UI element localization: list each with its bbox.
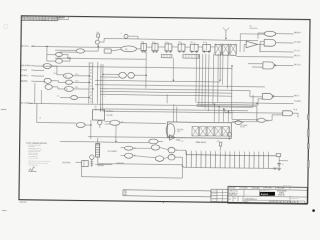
- ground bar 3: [278, 169, 281, 171]
- flip-flop cell 5 clock bubble b: [196, 51, 197, 52]
- svg-text:TO CLK: TO CLK: [240, 126, 245, 128]
- comb drop 12: [238, 155, 240, 168]
- junction dot 2: [69, 58, 70, 59]
- comb bottom rail: [182, 167, 276, 168]
- buffer gate B7: [169, 135, 175, 140]
- flip-flop cell 6 divider: [206, 44, 208, 51]
- comb tick 3: [195, 151, 197, 155]
- svg-text:E10: E10: [141, 42, 144, 44]
- wire row drop 1: [195, 54, 198, 102]
- wire input tp4 stub: [34, 69, 44, 71]
- or-gate left 3: [45, 84, 52, 89]
- wire SP CLK run: [31, 46, 121, 47]
- svg-text:PROJ ENG: PROJ ENG: [265, 187, 272, 189]
- comb tick 17: [263, 152, 265, 156]
- title bottom divider 243.0: [242, 196, 244, 203]
- parts table divider: [216, 189, 218, 201]
- wire gate feed y112: [225, 111, 283, 114]
- svg-text:E14: E14: [191, 42, 194, 44]
- comb drop 17: [263, 156, 265, 169]
- title bottom divider 233.0: [232, 196, 234, 203]
- sub register box 1: [161, 55, 172, 58]
- wire Q out: [120, 122, 166, 125]
- wire Q5 corner: [128, 36, 138, 39]
- zone tick left border: [1, 109, 6, 111]
- flip-flop cell 6: [203, 44, 211, 51]
- input stub wire (TP4) H: [31, 69, 33, 71]
- nand-gate R1: [263, 62, 274, 69]
- ground bar 1: [277, 167, 281, 169]
- or-gate mid 2: [65, 80, 72, 84]
- wire bus run y108: [103, 109, 248, 111]
- junction dot 21: [225, 38, 226, 39]
- wire Q4 down: [91, 159, 93, 167]
- wire mid run y91: [100, 91, 232, 93]
- logo box digital: [260, 192, 275, 196]
- flip-flop cell 3 top stub: [167, 42, 169, 43]
- wire B4 out: [164, 157, 168, 158]
- resistor network rung 1: [96, 144, 100, 146]
- junction dot 12: [231, 65, 232, 66]
- latch cell 1: [215, 45, 221, 56]
- wire drop x34: [34, 83, 36, 103]
- sub box tick 164: [163, 55, 165, 58]
- comb drop 6: [209, 155, 211, 168]
- wire B2 out: [62, 58, 70, 61]
- sub box tick 192: [191, 55, 193, 58]
- parts table rule 3: [211, 198, 228, 200]
- wire B0 out: [158, 140, 163, 142]
- svg-text:PD STB L: PD STB L: [294, 42, 301, 44]
- wire out1: [276, 33, 294, 35]
- wire out6: [274, 95, 294, 97]
- or-gate mid 3: [64, 86, 73, 91]
- comb tick 11: [234, 151, 236, 155]
- wire row drop 7: [217, 54, 220, 102]
- wire bus run y102: [197, 102, 294, 103]
- svg-text:PC H: PC H: [294, 109, 298, 111]
- flip-flop cell 4 top stub: [181, 42, 183, 43]
- flip-flop cell 1 clock bubble: [142, 51, 143, 52]
- wire row drop 4: [204, 54, 207, 109]
- comb drop 2: [190, 155, 192, 168]
- wire end stem: [278, 156, 280, 162]
- FF pin 2: [100, 108, 102, 110]
- wire input mbinc stub: [34, 75, 44, 77]
- dist box 7: [291, 201, 295, 203]
- junction dot 17: [256, 103, 257, 104]
- wire P out: [85, 124, 91, 126]
- wire drop x90: [90, 120, 92, 139]
- wire drop x146: [145, 52, 147, 89]
- wire cap dn: [278, 165, 280, 168]
- wire long y136: [88, 137, 169, 138]
- svg-text:PAUSE L: PAUSE L: [21, 80, 29, 83]
- bus vertical 3: [96, 62, 99, 103]
- wire resnet dn: [97, 157, 99, 164]
- wire M1 out: [72, 75, 89, 77]
- buffer-gate B2: [55, 59, 62, 64]
- signature underline: [29, 170, 37, 172]
- wire Q in1: [105, 120, 110, 122]
- resistor R2: [219, 142, 221, 146]
- wire B feed vertical: [47, 46, 56, 61]
- svg-text:RUN SET L: RUN SET L: [117, 163, 125, 165]
- junction dot 19: [90, 124, 91, 125]
- dist box 2: [273, 201, 277, 203]
- Q4 rung 2: [90, 162, 93, 164]
- capacitor C1 plate1: [277, 162, 280, 164]
- resistor network rung 2: [96, 146, 100, 148]
- svg-text:MB INC L: MB INC L: [21, 75, 29, 77]
- junction dot 20: [182, 166, 183, 167]
- module cell 3: [207, 127, 214, 136]
- capacitor C1 plate2: [278, 164, 280, 166]
- svg-text:GND REF: GND REF: [97, 165, 103, 167]
- and-gate R3: [283, 111, 293, 116]
- comb end box: [276, 154, 281, 157]
- wire antenna stem: [225, 31, 227, 39]
- flip-flop cell 3 clock bubble: [166, 51, 167, 52]
- svg-text:E7: E7: [121, 121, 123, 123]
- Q4 rung 3: [90, 164, 93, 166]
- junction dot 10: [173, 80, 174, 81]
- or-gate B1: [125, 146, 133, 150]
- comb tick 4: [200, 151, 202, 155]
- comb tick 18: [267, 152, 269, 156]
- dist box 5: [284, 201, 288, 203]
- wire comp229 up: [228, 127, 230, 133]
- wire E10 to E11: [111, 49, 121, 51]
- and-gate T3: [264, 39, 276, 46]
- bus vertical 2: [91, 62, 94, 103]
- or-gate C2: [128, 72, 135, 78]
- wire module drop 2: [218, 107, 220, 122]
- wire mid run y94: [100, 94, 232, 96]
- buffer-gate B1: [55, 52, 62, 56]
- wire gateA in1: [55, 49, 76, 51]
- bus vertical 4: [99, 64, 102, 112]
- svg-text:E13: E13: [178, 42, 181, 44]
- wire B1 out: [133, 147, 151, 149]
- wire R4 out: [266, 115, 283, 121]
- wire out2: [276, 42, 294, 44]
- svg-text:SHEET 1 OF 1: SHEET 1 OF 1: [291, 198, 299, 200]
- wire drop x41: [40, 90, 42, 103]
- svg-text:DIST | 1 | 2 | 3 | 4: DIST | 1 | 2 | 3 | 4: [283, 185, 293, 187]
- wire B7 out: [175, 136, 186, 138]
- zone mark right border y160.5: [307, 161, 309, 168]
- wire C out: [134, 74, 146, 76]
- comb tick 12: [239, 152, 241, 156]
- latch cell 2 hatch: [222, 44, 229, 54]
- junction dot 11: [219, 80, 220, 81]
- svg-text:E24: E24: [266, 120, 269, 122]
- wire antenna Y left arm: [223, 28, 226, 31]
- svg-text:REGISTER: REGISTER: [278, 194, 285, 196]
- transistor Q3: [98, 120, 102, 124]
- comb tick 9: [224, 151, 226, 155]
- wire row drop 2: [198, 54, 201, 104]
- input stub wire PAUSE L: [31, 80, 33, 82]
- wire row link 1: [146, 46, 151, 48]
- svg-text:PB CLK L: PB CLK L: [294, 64, 301, 66]
- wire module drop 3: [223, 109, 225, 122]
- wire M3 out: [74, 88, 90, 90]
- resistor network: [96, 143, 100, 157]
- wire out3: [260, 44, 294, 52]
- wire row link 4: [185, 46, 190, 48]
- module cell 1: [192, 127, 199, 136]
- junction dot 13: [214, 104, 215, 105]
- or-gate top right: [264, 31, 276, 36]
- title sig divider: [243, 189, 245, 196]
- Q4 rung 1: [90, 160, 93, 162]
- comb tick 16: [258, 152, 260, 156]
- junction dot 8: [102, 74, 103, 75]
- signature strip: [123, 190, 211, 197]
- wire latch drop 1: [222, 54, 224, 85]
- svg-text:ENG: ENG: [124, 194, 127, 196]
- wire R5 in: [228, 122, 235, 124]
- zone mark right border y114.5: [307, 115, 309, 120]
- wire L2 to M2: [51, 81, 65, 83]
- or-gate P: [76, 122, 85, 127]
- wire out5: [275, 64, 293, 66]
- flip-flop E30: [93, 110, 105, 120]
- comb tick 14: [248, 152, 250, 156]
- comb tick 6: [210, 151, 212, 155]
- wire latch drop 2: [227, 54, 229, 89]
- latch cell 1 hatch: [215, 44, 222, 54]
- parts table: [211, 189, 228, 202]
- comb top rail: [186, 155, 276, 156]
- wire long y163: [98, 164, 183, 165]
- title header divider 252.0: [251, 186, 253, 189]
- svg-text:E2: E2: [90, 82, 92, 84]
- svg-text:.01: .01: [282, 164, 284, 166]
- svg-text:PC LD L: PC LD L: [294, 50, 300, 52]
- dot bottom right outside border: [312, 209, 315, 212]
- wire L3 to M3: [52, 87, 64, 89]
- flip-flop cell 2 divider: [154, 44, 156, 51]
- svg-text:+5V: +5V: [217, 141, 220, 143]
- wire M4 out: [78, 97, 90, 99]
- comb tick 7: [214, 151, 216, 155]
- module cell 2: [200, 127, 207, 136]
- zone tick bottom border: [163, 201, 165, 203]
- title block: [228, 186, 308, 204]
- comb drop 14: [248, 155, 250, 168]
- dist box 1: [270, 201, 274, 203]
- sub register box 2: [183, 54, 199, 58]
- wire R3 out: [292, 113, 298, 117]
- wire long y141: [60, 141, 149, 142]
- flip-flop cell 1: [141, 44, 147, 51]
- parts table rule 1: [211, 191, 228, 193]
- svg-text:+5: +5: [39, 117, 41, 119]
- wire Q5 stub: [125, 37, 127, 40]
- wire R1 in1: [248, 63, 263, 65]
- svg-text:SET L: SET L: [75, 74, 79, 76]
- wire L1 to M1: [51, 66, 63, 75]
- title bottom divider r: [289, 196, 291, 203]
- title sig divider2: [258, 189, 260, 196]
- flip-flop cell 2: [152, 44, 158, 51]
- svg-text:BUS STRB L: BUS STRB L: [21, 65, 32, 67]
- title header divider 276.0: [275, 186, 277, 189]
- sub box tick 195: [194, 54, 196, 57]
- wire row link 5: [198, 46, 203, 48]
- title header rule: [228, 189, 307, 190]
- svg-text:(TP4) H: (TP4) H: [21, 70, 28, 72]
- title bottom divider 238.0: [237, 196, 239, 203]
- input stub wire MB INC L: [31, 75, 33, 77]
- wire module drop left a: [173, 104, 175, 122]
- transistor Q4: [90, 155, 94, 159]
- wire bus run y106 rise: [252, 95, 254, 107]
- svg-text:CLK EN L: CLK EN L: [106, 115, 113, 117]
- flip-flop cell 4: [178, 44, 185, 51]
- wire mid run y58: [55, 58, 146, 59]
- flip-flop cell 2 clock bubble: [153, 51, 154, 52]
- svg-text:EQUIPMENT CORP: EQUIPMENT CORP: [260, 190, 270, 192]
- input stub wire KEY CONT L: [30, 102, 32, 104]
- svg-text:SP CLK L: SP CLK L: [21, 46, 29, 48]
- comb tick 1: [186, 151, 188, 155]
- comb tick 10: [229, 151, 231, 155]
- svg-text:E11: E11: [152, 42, 155, 44]
- wire R1 to Q1: [97, 37, 99, 40]
- wire C in1: [103, 73, 119, 75]
- resistor network rung 4: [96, 151, 100, 153]
- buffer gate T2: [246, 41, 258, 48]
- svg-text:E15 9401: E15 9401: [177, 129, 184, 131]
- zone mark right border y143.5: [307, 144, 309, 149]
- dist box 4: [280, 201, 284, 203]
- sub box tick 167: [166, 54, 168, 57]
- svg-text:CS: CS: [234, 198, 236, 200]
- zone mark right border y129.0: [307, 129, 309, 137]
- wire input pause stub: [34, 80, 45, 82]
- junction dot 3: [89, 75, 90, 76]
- title header divider 264.0: [263, 186, 265, 189]
- register module box: [167, 122, 231, 138]
- wire module drop left b: [176, 107, 178, 122]
- svg-text:SHEET 1: SHEET 1: [58, 18, 64, 20]
- sub box tick 186: [185, 55, 187, 58]
- svg-text:E15: E15: [203, 42, 206, 44]
- latch cell 3: [230, 45, 236, 56]
- wire B3 out: [160, 147, 168, 149]
- sub box tick 170: [169, 55, 171, 58]
- wire M2 out: [72, 81, 89, 83]
- parts table rule 2: [211, 194, 228, 196]
- dist box 6: [287, 201, 291, 203]
- flip-flop cell 6 top stub: [206, 42, 208, 43]
- or-gate Q: [110, 120, 120, 125]
- wire B2 in: [121, 154, 125, 156]
- ground bar left 2: [274, 168, 276, 170]
- junction dot 18: [115, 141, 116, 142]
- bus vertical 5: [101, 64, 104, 111]
- wire bus run y104: [197, 98, 263, 105]
- svg-text:digital: digital: [261, 193, 269, 196]
- flip-flop cell 5: [190, 44, 198, 51]
- junction dot 9: [146, 75, 147, 76]
- wire cluster feed: [76, 161, 82, 163]
- flip-flop cell 5 top stub: [193, 42, 195, 43]
- title header divider 240.0: [239, 186, 241, 189]
- ground bar 2: [278, 168, 280, 170]
- flip-flop cell 6 clock bubble b: [208, 51, 209, 52]
- or-gate E11: [121, 46, 137, 52]
- dist box 8: [294, 201, 298, 203]
- revision table: [21, 16, 57, 21]
- wire mid run y88: [100, 89, 263, 97]
- or-gate B6: [168, 154, 175, 160]
- wire row link 2: [158, 46, 165, 48]
- transistor Q1: [95, 40, 99, 44]
- svg-text:E9: E9: [242, 122, 244, 124]
- wire M4 feed: [60, 96, 70, 98]
- wire top run to OR: [104, 39, 258, 41]
- title mid rule: [228, 196, 307, 197]
- latch S3 tick: [83, 161, 85, 167]
- flip-flop cell 4 clock bubble b: [183, 51, 184, 52]
- comb tick 15: [253, 152, 255, 156]
- or-gate B0: [149, 139, 158, 144]
- wire antenna Y right arm: [226, 28, 229, 31]
- or-gate B5: [168, 147, 175, 153]
- comb drop 4: [200, 155, 202, 168]
- wire B1 in: [121, 147, 125, 149]
- latch cell 2: [222, 45, 228, 56]
- wire Q in2: [105, 123, 110, 125]
- wire row drop 6: [212, 54, 215, 104]
- parts table divider2: [221, 189, 223, 201]
- wire Q1 down: [97, 44, 99, 46]
- FF pin 1: [95, 108, 97, 110]
- flip-flop cell 4 clock bubble: [179, 51, 180, 52]
- comb drop 1: [185, 155, 187, 168]
- wire gateA in2: [60, 51, 76, 53]
- svg-text:CRC: CRC: [177, 131, 180, 133]
- transistor Q5: [124, 34, 128, 38]
- wire comp229 dn: [228, 137, 230, 140]
- nand-gate A: [76, 49, 84, 53]
- flip-flop cell 3: [165, 44, 172, 51]
- svg-text:BUS RUN L: BUS RUN L: [63, 162, 72, 164]
- module cell 5: [222, 127, 229, 136]
- wire drop x173: [172, 58, 174, 80]
- wire T3 feed: [260, 42, 264, 53]
- comb drop 7: [214, 155, 216, 168]
- wire out4: [236, 55, 293, 58]
- svg-text:INH L: INH L: [75, 87, 79, 89]
- wire row link 3: [172, 46, 178, 48]
- wire row to latches: [210, 46, 214, 48]
- comb drop 3: [195, 155, 197, 168]
- row box E10: [104, 49, 111, 53]
- svg-text:TP4 L: TP4 L: [53, 73, 57, 75]
- wire row drop 3: [201, 54, 204, 107]
- or-gate B4: [155, 156, 163, 162]
- tall gate in module: [166, 123, 175, 137]
- latch S3: [81, 161, 88, 167]
- wire bus run y111: [103, 111, 232, 113]
- wire R4 in2: [232, 120, 257, 122]
